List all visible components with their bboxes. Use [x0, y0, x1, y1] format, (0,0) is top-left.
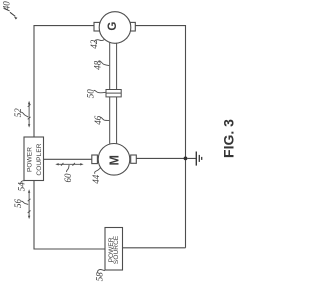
svg-text:56: 56: [13, 199, 23, 209]
motor M: [92, 144, 137, 176]
svg-text:60: 60: [63, 173, 73, 183]
svg-text:58: 58: [94, 272, 104, 282]
node junction at ground tap: [184, 157, 188, 161]
power source box: [105, 228, 123, 271]
wire power source right to right-side vertical net: [123, 247, 186, 249]
wire 60 power coupler right to motor M left terminal: [44, 158, 93, 160]
svg-text:40: 40: [2, 1, 12, 11]
svg-text:54: 54: [17, 182, 27, 192]
wire 56 power coupler bottom to power source left: [34, 181, 105, 250]
svg-text:SOURCE: SOURCE: [113, 235, 120, 264]
svg-text:44: 44: [91, 174, 101, 184]
svg-text:46: 46: [93, 115, 103, 125]
wire generator G left terminal to power coupler top: [34, 26, 94, 137]
svg-text:POWER: POWER: [27, 147, 34, 172]
generator G: [94, 12, 135, 44]
power coupler box: [24, 137, 44, 181]
svg-text:COUPLER: COUPLER: [36, 143, 43, 175]
wire motor M right terminal to ground junction: [136, 157, 185, 159]
extent arrow 56: [28, 189, 31, 219]
extent arrow 60: [55, 163, 83, 166]
coupling 50 on shaft: [106, 90, 121, 97]
shaft 48 upper (generator to coupling): [110, 43, 117, 90]
svg-text:FIG. 3: FIG. 3: [221, 119, 237, 158]
svg-text:42: 42: [89, 39, 99, 49]
svg-text:M: M: [107, 155, 121, 165]
wire generator G right terminal down right side to power source net: [136, 26, 186, 248]
ground: [187, 152, 201, 166]
shaft 46 lower (coupling to motor): [110, 97, 117, 144]
extent arrow 52: [28, 101, 31, 128]
svg-text:G: G: [107, 22, 119, 31]
